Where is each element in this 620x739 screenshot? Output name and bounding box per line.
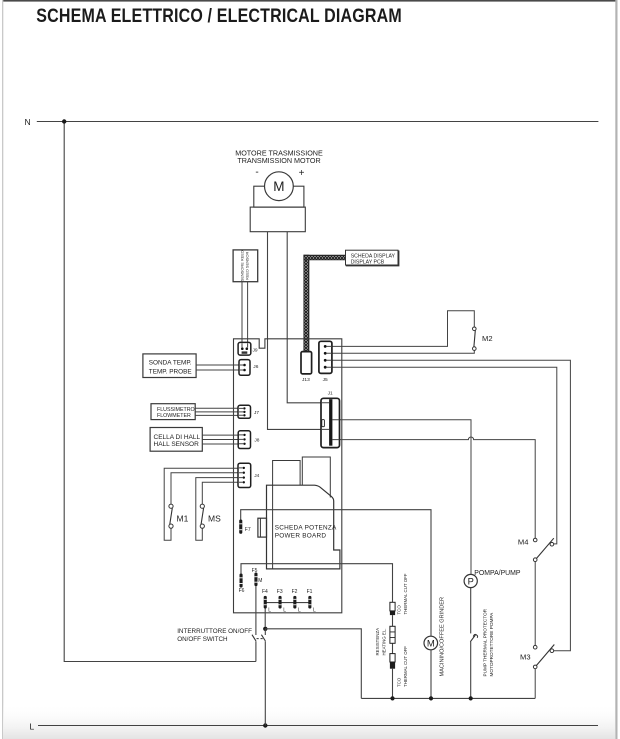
svg-text:M4: M4: [518, 538, 529, 547]
svg-text:FLOWMETER: FLOWMETER: [157, 413, 191, 419]
svg-text:L: L: [298, 608, 301, 614]
svg-text:M3: M3: [520, 652, 531, 661]
svg-text:J5: J5: [323, 377, 328, 383]
svg-text:P: P: [468, 576, 474, 586]
svg-text:MS: MS: [208, 513, 221, 523]
svg-text:F4: F4: [262, 589, 268, 595]
svg-text:INTERRUTTORE ON/OFF: INTERRUTTORE ON/OFF: [177, 628, 252, 635]
svg-text:N: N: [25, 117, 31, 127]
svg-text:F1: F1: [307, 589, 313, 595]
svg-text:RESISTENZA: RESISTENZA: [375, 628, 380, 656]
svg-text:F2: F2: [292, 589, 298, 595]
svg-text:F6: F6: [239, 588, 245, 594]
svg-text:POMPA/PUMP: POMPA/PUMP: [474, 570, 521, 577]
svg-text:F5: F5: [252, 568, 258, 574]
svg-text:HEATING EL.: HEATING EL.: [382, 629, 387, 656]
svg-text:L: L: [313, 608, 316, 614]
svg-text:M: M: [273, 179, 284, 194]
svg-text:M: M: [427, 638, 435, 649]
svg-text:CELLA DI HALL: CELLA DI HALL: [154, 434, 201, 441]
svg-text:M2: M2: [482, 334, 493, 343]
svg-text:SCHEMA ELETTRICO / ELECTRICAL: SCHEMA ELETTRICO / ELECTRICAL DIAGRAM: [36, 4, 402, 26]
svg-text:F7: F7: [245, 527, 251, 533]
svg-text:DISPLAY PCB: DISPLAY PCB: [351, 260, 385, 266]
svg-text:L: L: [30, 722, 35, 732]
svg-text:TCO: TCO: [397, 677, 402, 687]
svg-text:SCHEDA DISPLAY: SCHEDA DISPLAY: [351, 253, 396, 259]
svg-text:J6: J6: [253, 364, 258, 370]
svg-text:SCHEDA POTENZA: SCHEDA POTENZA: [275, 524, 337, 531]
svg-text:M1: M1: [177, 513, 189, 523]
svg-text:SENSORE REED: SENSORE REED: [239, 250, 244, 281]
svg-text:+: +: [299, 168, 305, 179]
svg-text:TRANSMISSION MOTOR: TRANSMISSION MOTOR: [237, 156, 320, 165]
svg-text:MACININO/COFFEE GRINDER: MACININO/COFFEE GRINDER: [440, 597, 446, 677]
svg-text:THERMAL CUT OFF: THERMAL CUT OFF: [403, 573, 408, 614]
svg-text:M: M: [258, 578, 262, 584]
svg-text:POWER BOARD: POWER BOARD: [275, 533, 327, 540]
svg-text:SONDA TEMP.: SONDA TEMP.: [149, 359, 192, 366]
svg-text:J9: J9: [253, 347, 258, 353]
svg-text:MOTOPROTETTORE POMPA: MOTOPROTETTORE POMPA: [489, 612, 494, 677]
svg-text:ON/OFF SWITCH: ON/OFF SWITCH: [177, 636, 228, 643]
svg-text:L: L: [268, 608, 271, 614]
svg-text:PUMP THERMAL PROTECTOR: PUMP THERMAL PROTECTOR: [482, 608, 487, 676]
svg-text:F3: F3: [277, 589, 283, 595]
svg-text:L: L: [283, 608, 286, 614]
svg-text:J8: J8: [254, 438, 259, 444]
svg-text:J1: J1: [328, 391, 333, 397]
svg-text:J7: J7: [254, 410, 259, 416]
svg-text:REED SENSOR: REED SENSOR: [245, 251, 250, 280]
svg-text:HALL SENSOR: HALL SENSOR: [154, 441, 200, 448]
svg-text:-: -: [255, 167, 258, 178]
svg-text:THERMAL CUT OFF: THERMAL CUT OFF: [403, 646, 408, 687]
svg-text:TEMP. PROBE: TEMP. PROBE: [149, 369, 192, 376]
svg-text:J13: J13: [302, 377, 310, 383]
svg-text:J4: J4: [254, 473, 259, 479]
svg-text:TCO: TCO: [397, 605, 402, 615]
